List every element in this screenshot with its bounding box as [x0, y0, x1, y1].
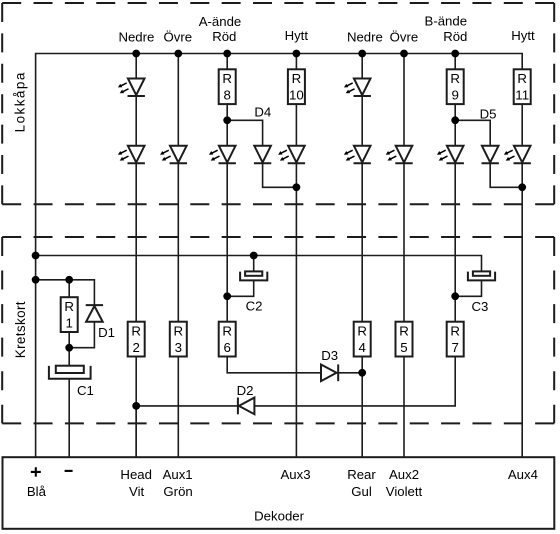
enclosure Kretskort right edge — [553, 237, 555, 423]
svg-text:C2: C2 — [246, 298, 263, 313]
svg-text:R: R — [173, 323, 183, 338]
junction C3-R7 node — [451, 292, 459, 300]
diode D5 — [482, 146, 499, 164]
wire column Rear/Gul (Nedre B) — [361, 54, 363, 458]
svg-text:7: 7 — [451, 340, 458, 355]
svg-text:R: R — [450, 71, 460, 86]
wire column Aux1/Grön (Övre A) — [177, 54, 179, 458]
svg-text:Head: Head — [120, 467, 152, 482]
terminal label + — [31, 467, 41, 476]
enclosure Kretskort top edge — [2, 236, 554, 238]
LED Röd A — [209, 146, 236, 164]
svg-text:C3: C3 — [471, 299, 488, 314]
diode D1 — [86, 305, 103, 322]
LED Nedre A lower — [118, 146, 145, 164]
resistor R2 — [128, 322, 145, 357]
svg-text:11: 11 — [515, 88, 529, 103]
svg-text:6: 6 — [223, 340, 230, 355]
svg-text:R: R — [517, 71, 527, 86]
junction R1 bottom node — [65, 344, 73, 352]
svg-text:1: 1 — [65, 315, 72, 330]
svg-text:Nedre: Nedre — [118, 29, 154, 44]
LED Hytt B — [504, 146, 531, 164]
resistor R10 — [288, 69, 305, 104]
svg-text:R: R — [399, 323, 409, 338]
svg-text:D2: D2 — [237, 383, 254, 398]
svg-text:Övre: Övre — [390, 30, 419, 45]
terminal label − — [65, 470, 73, 472]
svg-text:D1: D1 — [98, 325, 115, 340]
svg-text:Hytt: Hytt — [511, 28, 535, 43]
svg-text:R: R — [64, 299, 74, 314]
enclosure Lokkåpa bottom edge — [2, 203, 554, 205]
wire D5 branch — [455, 120, 522, 187]
enclosure Kretskort left edge — [1, 237, 3, 423]
svg-text:R: R — [292, 71, 302, 86]
resistor R9 — [447, 69, 464, 104]
svg-text:Röd: Röd — [212, 29, 236, 44]
svg-text:Rear: Rear — [347, 467, 376, 482]
svg-text:8: 8 — [223, 88, 230, 103]
resistor R5 — [396, 322, 413, 357]
svg-text:A-ände: A-ände — [199, 14, 242, 29]
wire column Aux3 (Hytt A) — [295, 54, 297, 458]
enclosure Kretskort bottom edge — [2, 422, 554, 424]
junction D3-R4 node — [358, 369, 366, 377]
capacitor C2 — [240, 271, 267, 280]
diode D3 — [321, 364, 338, 381]
svg-text:Aux3: Aux3 — [280, 467, 310, 482]
svg-text:R: R — [222, 71, 232, 86]
junction plus rail left — [32, 252, 40, 260]
svg-text:B-ände: B-ände — [425, 13, 468, 28]
svg-text:Blå: Blå — [27, 484, 47, 499]
LED Övre B — [386, 146, 413, 164]
junction top bus Röd B — [451, 50, 459, 58]
svg-text:Grön: Grön — [163, 484, 192, 499]
resistor R11 — [514, 69, 531, 104]
junction D4-Hytt A node — [293, 183, 301, 191]
LED Nedre B upper — [344, 79, 371, 97]
svg-text:5: 5 — [400, 340, 407, 355]
wire D4 branch — [227, 120, 296, 187]
svg-text:10: 10 — [289, 88, 304, 103]
junction top bus Hytt A — [293, 50, 301, 58]
enclosure Lokkåpa right edge — [553, 3, 555, 204]
junction minus rail left — [32, 276, 40, 284]
wire minus rail to D1 — [36, 280, 95, 305]
resistor R1 — [61, 297, 78, 332]
junction R8-D4 node — [223, 116, 231, 124]
junction R1 top node — [65, 276, 73, 284]
junction D2-R2 node — [132, 402, 140, 410]
wire minus column through R1 and C1 — [68, 280, 70, 457]
resistor R7 — [447, 322, 464, 357]
svg-text:Kretskort: Kretskort — [13, 301, 28, 358]
svg-text:Lokkåpa: Lokkåpa — [13, 71, 28, 132]
svg-text:R: R — [131, 323, 141, 338]
enclosure Lokkåpa left edge — [1, 3, 3, 204]
svg-text:Aux1: Aux1 — [163, 467, 193, 482]
diode D4 — [254, 146, 271, 164]
wire C2 top stub — [253, 256, 255, 273]
capacitor C3 — [468, 271, 495, 280]
junction top bus Övre B — [400, 50, 408, 58]
junction top bus Nedre B — [358, 50, 366, 58]
svg-text:D4: D4 — [254, 105, 271, 120]
wire left supply + column — [36, 54, 523, 458]
junction top bus Röd A — [223, 50, 231, 58]
wire C3 bottom link to R7 column — [455, 280, 481, 296]
junction D5-Hytt B node — [518, 183, 526, 191]
svg-text:9: 9 — [451, 88, 458, 103]
svg-text:Dekoder: Dekoder — [254, 509, 304, 524]
wire column Röd A / R8-R6 with D3 link — [227, 54, 362, 373]
svg-text:Övre: Övre — [164, 30, 193, 45]
LED Övre A — [160, 146, 187, 164]
wire D1 anode to R1 bottom node — [69, 322, 94, 348]
enclosure Lokkåpa top edge — [2, 2, 554, 4]
svg-text:D3: D3 — [321, 348, 338, 363]
resistor R8 — [219, 69, 236, 104]
svg-text:Nedre: Nedre — [347, 29, 383, 44]
junction top bus Övre A — [174, 50, 182, 58]
svg-text:R: R — [357, 323, 367, 338]
svg-text:2: 2 — [132, 340, 139, 355]
LED Hytt A — [278, 146, 305, 164]
svg-text:Hytt: Hytt — [285, 28, 309, 43]
wire column Aux2/Violett (Övre B) — [403, 54, 405, 458]
svg-text:4: 4 — [358, 340, 365, 355]
svg-text:Aux2: Aux2 — [389, 467, 419, 482]
wire column Head/Vit (Nedre A) — [135, 54, 137, 458]
resistor R4 — [354, 322, 371, 357]
svg-text:3: 3 — [175, 340, 182, 355]
svg-text:Röd: Röd — [443, 29, 467, 44]
resistor R6 — [219, 322, 236, 357]
svg-text:Vit: Vit — [129, 484, 144, 499]
connector box Dekoder — [3, 457, 555, 529]
svg-text:Aux4: Aux4 — [508, 467, 538, 482]
junction top bus Nedre A — [132, 50, 140, 58]
svg-text:C1: C1 — [77, 383, 94, 398]
svg-text:R: R — [450, 323, 460, 338]
svg-text:D5: D5 — [480, 107, 497, 122]
LED Röd B — [437, 146, 464, 164]
resistor R3 — [170, 322, 187, 357]
LED Nedre B lower — [344, 146, 371, 164]
svg-text:Gul: Gul — [351, 484, 372, 499]
wire column Röd B / R9-R7 with D2 link — [136, 54, 455, 458]
svg-text:R: R — [222, 323, 232, 338]
diode D2 — [238, 398, 255, 415]
LED Nedre A upper — [118, 79, 145, 97]
wire C2 bottom link to R6 column — [227, 280, 254, 296]
junction C2-R6 node — [223, 292, 231, 300]
wire Kretskort supply bus to C3 — [36, 256, 482, 273]
junction C2 tap — [250, 252, 258, 260]
capacitor C1 — [49, 366, 91, 379]
svg-text:Violett: Violett — [386, 484, 423, 499]
junction R9-D5 node — [451, 116, 459, 124]
